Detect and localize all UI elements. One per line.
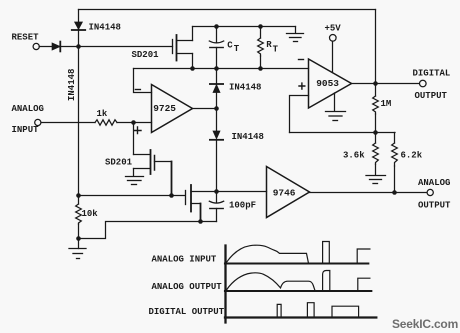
transistor Q3	[186, 185, 267, 222]
node CT bottom	[214, 66, 219, 71]
svg-text:9053: 9053	[316, 78, 339, 89]
svg-text:SD201: SD201	[105, 158, 133, 168]
waveform trace analog output end step	[358, 278, 370, 290]
ground G1 (top right)	[287, 27, 304, 42]
svg-text:OUTPUT: OUTPUT	[418, 201, 451, 211]
wire analog input	[41, 122, 95, 124]
svg-text:DIGITAL: DIGITAL	[413, 69, 451, 79]
node 10k bottom	[76, 236, 81, 241]
svg-text:+5V: +5V	[325, 24, 342, 34]
node CT top	[214, 24, 219, 29]
node RT top	[258, 24, 263, 29]
svg-text:ANALOG OUTPUT: ANALOG OUTPUT	[152, 282, 223, 292]
ground G3 under 9053	[326, 93, 346, 121]
waveform trace analog output curve	[227, 273, 315, 290]
wire bottom return	[79, 222, 217, 239]
waveform trace analog input pulse	[323, 242, 330, 263]
resistor RT	[258, 27, 264, 69]
capacitor C 100pF	[209, 192, 223, 222]
svg-text:SD201: SD201	[132, 50, 160, 60]
waveform trace digital output pulse 2	[307, 303, 314, 317]
wire inner rail (9725 feedback to 9053 minus)	[134, 68, 309, 70]
transistor Q2 SD201 (mirrored)	[134, 150, 172, 196]
wire 9725 output node	[193, 108, 217, 110]
wire 1k to 9725 plus	[117, 122, 152, 124]
node divider mid	[373, 130, 378, 135]
minus mark U1	[135, 89, 140, 91]
node Q3 source / bottom return	[198, 219, 203, 224]
wire top rail	[79, 9, 376, 11]
label ANALOG INPUT (left)	[12, 104, 44, 135]
wire +5V to 9053	[332, 42, 334, 73]
svg-text:9725: 9725	[153, 103, 176, 114]
svg-text:DIGITAL OUTPUT: DIGITAL OUTPUT	[149, 307, 225, 317]
label RT	[266, 40, 278, 54]
wire divider rail	[290, 132, 396, 134]
svg-text:T: T	[273, 45, 279, 55]
terminal ANALOG INPUT	[35, 119, 41, 125]
wire left vertical column	[78, 10, 80, 205]
terminal DIGITAL OUTPUT	[420, 80, 427, 87]
plus mark U2	[299, 83, 305, 89]
resistor R 6.2k	[392, 133, 398, 193]
svg-text:SeekIC.com: SeekIC.com	[392, 317, 458, 331]
node RT bottom	[258, 66, 263, 71]
diode D0 reset series (pointing right)	[52, 42, 60, 52]
svg-text:T: T	[234, 44, 240, 54]
terminal +5V	[330, 35, 337, 42]
svg-text:R: R	[266, 40, 272, 50]
label CT	[227, 40, 240, 53]
ground G5 under 10k	[69, 249, 86, 259]
op-amp U3 9746	[267, 167, 310, 218]
waveform trace digital output pulse 3	[332, 306, 359, 316]
svg-text:IN4148: IN4148	[89, 23, 121, 33]
wire left column below 10k	[78, 224, 80, 249]
waveform trace digital output pulse 1	[277, 304, 281, 316]
waveform axis	[224, 246, 226, 323]
svg-text:ANALOG: ANALOG	[418, 178, 450, 188]
wire reset rail to Q1 gate	[39, 46, 172, 48]
svg-text:RESET: RESET	[12, 33, 40, 43]
wire upper inner rail	[193, 26, 296, 28]
svg-text:C: C	[227, 40, 233, 50]
wire plus node down to Q2	[133, 123, 135, 155]
label DIGITAL OUTPUT (right)	[413, 69, 451, 102]
resistor R 1M	[373, 84, 379, 133]
node reset/left column	[76, 44, 81, 49]
diode D1 IN4148 (pointing down)	[72, 22, 85, 30]
node Q1 source on rail	[190, 66, 195, 71]
node 6.2k / analog out	[392, 190, 397, 195]
transistor Q1 SD201	[173, 27, 193, 69]
diode D3 IN4148 (pointing down)	[210, 109, 223, 192]
svg-text:IN4148: IN4148	[67, 69, 77, 101]
svg-text:9746: 9746	[273, 187, 296, 198]
waveform trace analog input baseline	[225, 262, 368, 264]
node 9053 output	[373, 81, 378, 86]
svg-text:10k: 10k	[82, 209, 99, 219]
node left column / gate rail	[76, 193, 81, 198]
svg-text:1k: 1k	[97, 109, 108, 119]
op-amp U1 9725	[152, 85, 193, 133]
wire top rail drop to 9053 output	[375, 10, 377, 84]
ground G2 under Q2	[126, 177, 144, 185]
waveform trace analog output pulse	[323, 271, 330, 291]
terminal ANALOG OUTPUT	[427, 189, 433, 195]
resistor R 1k	[95, 120, 117, 125]
terminal RESET	[33, 43, 39, 49]
capacitor CT	[209, 27, 223, 69]
wire 9053 plus input loop	[290, 96, 309, 133]
svg-text:OUTPUT: OUTPUT	[415, 91, 448, 101]
resistor R 10k	[76, 204, 82, 224]
waveform trace digital output baseline	[225, 316, 376, 318]
minus mark U2	[299, 59, 304, 61]
op-amp U2 9053	[309, 59, 352, 108]
svg-text:IN4148: IN4148	[229, 83, 261, 93]
wire 9053 output	[352, 83, 420, 85]
plus mark U1	[135, 127, 142, 134]
svg-text:ANALOG INPUT: ANALOG INPUT	[152, 255, 217, 265]
svg-text:100pF: 100pF	[229, 201, 256, 211]
wire feedback drop to 9725 minus input	[134, 69, 152, 93]
waveform trace analog output baseline	[225, 290, 371, 292]
node Q2 drop on gate rail	[169, 193, 174, 198]
label ANALOG OUTPUT (right)	[418, 178, 451, 211]
ground G4 under 3.6k	[366, 176, 386, 184]
svg-text:INPUT: INPUT	[12, 125, 40, 135]
wire 9746 output to analog out	[310, 192, 427, 194]
svg-text:3.6k: 3.6k	[343, 151, 365, 161]
svg-text:1M: 1M	[381, 99, 392, 109]
node 9746 input	[214, 189, 219, 194]
resistor R 3.6k	[373, 133, 379, 176]
node 1k / plus input	[131, 120, 136, 125]
wire gate rail	[79, 195, 186, 197]
waveform trace analog input end step	[357, 249, 370, 262]
node 9725 output	[214, 106, 219, 111]
waveform trace analog input curve	[227, 245, 309, 262]
svg-text:IN4148: IN4148	[232, 132, 264, 142]
svg-text:ANALOG: ANALOG	[12, 104, 44, 114]
svg-text:6.2k: 6.2k	[401, 151, 423, 161]
diode D2 IN4148 (pointing up)	[210, 69, 223, 109]
